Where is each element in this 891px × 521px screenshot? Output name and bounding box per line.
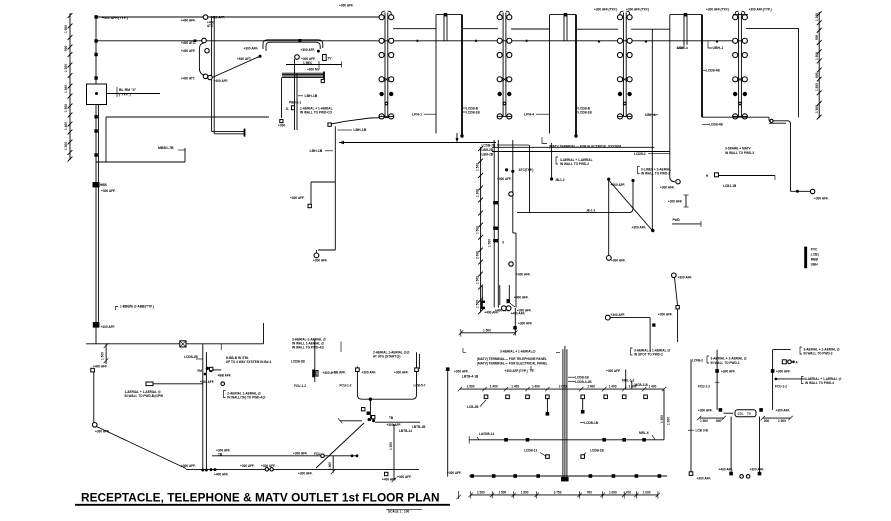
note 3-aerial right1 <box>707 356 747 365</box>
wire diagonal A to B <box>212 47 262 78</box>
svg-text:+300 AFF.: +300 AFF. <box>658 313 673 317</box>
note 2-aerial mid <box>224 391 266 400</box>
wire door frame D1 <box>436 13 464 138</box>
svg-text:+300 AFF.(TYP.): +300 AFF.(TYP.) <box>706 8 729 12</box>
label +400 AFF TYP <box>102 16 128 20</box>
note 3-aerial above grid right <box>631 348 671 357</box>
label LCB-2B grid <box>467 400 486 409</box>
dimension v664 <box>660 389 671 440</box>
svg-text:+300 AFF.: +300 AFF. <box>611 313 626 317</box>
label +300 AFF TYP row <box>339 4 772 12</box>
svg-text:700: 700 <box>587 491 592 495</box>
outlet circles cluster A <box>181 15 228 83</box>
svg-text:1 300: 1 300 <box>389 442 393 450</box>
svg-text:FCU: FCU <box>314 452 321 456</box>
svg-text:+300 AFF.(TYP.): +300 AFF.(TYP.) <box>594 8 617 12</box>
svg-text:+300 AFF.: +300 AFF. <box>497 177 512 181</box>
panel blob lower <box>93 322 115 329</box>
svg-text:LAVDB-14: LAVDB-14 <box>479 432 494 436</box>
outlet column K2 <box>617 11 632 119</box>
svg-text:+BB AFF.: +BB AFF. <box>332 370 346 374</box>
svg-text:1 500: 1 500 <box>498 491 506 495</box>
wire U drops <box>729 417 761 476</box>
svg-text:JE-1-1: JE-1-1 <box>586 208 596 212</box>
svg-text:700: 700 <box>626 491 631 495</box>
svg-text:H: H <box>706 174 709 178</box>
svg-text:LBH-2B: LBH-2B <box>482 148 494 152</box>
svg-text:LCB1-1B: LCB1-1B <box>723 184 737 188</box>
svg-text:1 500: 1 500 <box>700 419 708 423</box>
panel C blob corridor bottom <box>481 286 485 309</box>
svg-text:+300 AFF.: +300 AFF. <box>632 225 647 229</box>
wire door frame D3 <box>670 13 702 134</box>
wire row2 y439.8 <box>469 436 664 444</box>
legend bars <box>804 247 819 269</box>
wire diagonal knot <box>316 423 364 468</box>
svg-text:1 500: 1 500 <box>476 300 480 308</box>
outlet dots corridor top <box>505 168 533 173</box>
wire knot to right <box>375 422 426 429</box>
label UBH-1 <box>708 42 723 51</box>
wire left room rectangle <box>96 117 185 162</box>
svg-text:800: 800 <box>815 73 819 78</box>
svg-text:+300 AFF.: +300 AFF. <box>776 409 791 413</box>
wire JE-1-1 <box>517 179 635 213</box>
svg-text:LCDB-2B: LCDB-2B <box>291 359 306 363</box>
label corridor AFF texts <box>488 177 533 326</box>
svg-text:1 500: 1 500 <box>483 329 491 333</box>
wire center bundle <box>556 346 569 481</box>
svg-text:+300 AFF.: +300 AFF. <box>611 259 626 263</box>
label LCDB stack D2 <box>576 106 593 114</box>
note top 3-aerial left <box>292 337 326 349</box>
wire col3 bottom to right <box>702 117 769 121</box>
svg-text:1 000: 1 000 <box>609 491 617 495</box>
svg-text:MRL-1-2: MRL-1-2 <box>622 378 635 382</box>
svg-text:+400 AFF.: +400 AFF. <box>211 16 226 20</box>
svg-text:+300 AFF.: +300 AFF. <box>606 369 621 373</box>
svg-text:+400 ATC.: +400 ATC. <box>181 41 196 45</box>
note in wall to PWD <box>300 107 333 115</box>
outlet circle B1 <box>295 48 316 65</box>
label LCDB-4B lower <box>702 123 724 127</box>
wire main left wall vertical <box>96 15 98 344</box>
tv outlet B <box>323 55 333 61</box>
wire stems grid row1 <box>546 399 585 416</box>
svg-text:C7L: C7L <box>738 412 744 416</box>
label LCDB stack D1 <box>462 106 481 114</box>
wire long y343.8 <box>86 323 263 344</box>
wire B verticals <box>282 59 298 130</box>
section mark mid <box>668 195 689 207</box>
svg-text:1 400: 1 400 <box>64 122 68 130</box>
svg-text:+300 AFF.: +300 AFF. <box>362 370 377 374</box>
svg-text:LCDB-2B: LCDB-2B <box>184 355 199 359</box>
svg-text:1 000: 1 000 <box>643 491 651 495</box>
wire y117 left room <box>106 116 269 118</box>
dimension line corridor <box>476 146 484 314</box>
svg-text:A: A <box>796 361 799 365</box>
svg-text:IN WALL TO PWD-4@: IN WALL TO PWD-4@ <box>292 346 324 350</box>
label HBB1-7B <box>158 146 185 150</box>
svg-text:LCDB-1B: LCDB-1B <box>590 448 605 452</box>
svg-text:LBTB-4-1B: LBTB-4-1B <box>462 375 479 379</box>
svg-text:IN WALL TO PWD-2: IN WALL TO PWD-2 <box>804 352 833 356</box>
dimension U left <box>697 416 726 423</box>
svg-text:1 500: 1 500 <box>815 52 819 60</box>
svg-text:1 500: 1 500 <box>815 83 819 91</box>
svg-text:TV: TV <box>328 57 333 61</box>
wire corridor top links <box>492 147 670 151</box>
wire MRL verticals <box>622 370 648 390</box>
dimension v333 <box>328 456 336 474</box>
svg-text:+300 AFF.: +300 AFF. <box>293 451 308 455</box>
label LPH-1 <box>412 113 436 117</box>
svg-text:MRL-6: MRL-6 <box>639 431 649 435</box>
svg-text:+300 AFF.(TYP.): +300 AFF.(TYP.) <box>749 8 772 12</box>
svg-text:+400 AFF.: +400 AFF. <box>214 79 229 83</box>
svg-text:LBTB-1B: LBTB-1B <box>412 425 426 429</box>
svg-text:+300 AFF.: +300 AFF. <box>244 47 259 51</box>
svg-text:LBTB-14: LBTB-14 <box>399 429 412 433</box>
svg-text:FCU-1-2: FCU-1-2 <box>698 384 710 388</box>
label LBTB-14 <box>399 429 412 433</box>
note 2-aerial room top <box>341 342 410 359</box>
svg-text:1 500: 1 500 <box>660 415 664 423</box>
svg-text:1 500: 1 500 <box>64 25 68 33</box>
svg-text:JB-1-2: JB-1-2 <box>555 178 565 182</box>
svg-text:1 400: 1 400 <box>587 384 595 388</box>
label scale <box>386 509 422 513</box>
wire bus y41 <box>96 39 748 42</box>
svg-text:1 300: 1 300 <box>476 189 480 197</box>
wire circle 607 to grid <box>605 313 672 353</box>
svg-text:+300 AFF.: +300 AFF. <box>668 200 683 204</box>
label LPH-4 <box>524 113 550 117</box>
svg-text:+300 AFF.(TYP.): +300 AFF.(TYP.) <box>626 8 649 12</box>
label LBH-1B g <box>338 128 367 132</box>
svg-text:PVC: PVC <box>811 248 818 252</box>
note in wall mid <box>556 157 593 166</box>
svg-text:LCDB-7B: LCDB-7B <box>482 143 497 147</box>
wire diagonal mid <box>610 181 653 231</box>
svg-text:3-AERIAL + 1-AERIAL@: 3-AERIAL + 1-AERIAL@ <box>500 349 536 353</box>
svg-text:FCU-1-2: FCU-1-2 <box>775 384 787 388</box>
dimension bottom grid <box>456 491 660 500</box>
outlet left wall bottom <box>91 364 110 433</box>
svg-text:TB: TB <box>389 416 394 420</box>
svg-text:FM: FM <box>198 369 203 373</box>
svg-text:JL: JL <box>286 107 290 111</box>
wire right transition to v790 <box>769 119 791 124</box>
label 1-BBB ABB TYP <box>116 305 154 311</box>
labels corridor top stack <box>482 143 530 156</box>
svg-text:+400 AFF.: +400 AFF. <box>214 472 229 476</box>
svg-text:1 500: 1 500 <box>64 104 68 112</box>
svg-text:+300 AFF.: +300 AFF. <box>721 369 736 373</box>
svg-text:+300 AFF.: +300 AFF. <box>447 471 462 475</box>
svg-text:IN WALL TO PWD-4: IN WALL TO PWD-4 <box>805 381 834 385</box>
wire PWD <box>672 218 701 227</box>
title text <box>81 491 440 505</box>
svg-text:800: 800 <box>764 419 769 423</box>
svg-text:900: 900 <box>815 35 819 40</box>
labels U bottom <box>719 467 765 478</box>
svg-text:+300 AFF.: +300 AFF. <box>697 476 712 480</box>
svg-text:1 400: 1 400 <box>609 384 617 388</box>
svg-text:+400 AFF.: +400 AFF. <box>181 49 196 53</box>
note 3-aerial right2 <box>800 347 840 356</box>
dimension small left <box>101 343 109 364</box>
label LBH-1B <box>298 94 318 98</box>
svg-text:+400 AFF.: +400 AFF. <box>719 467 734 471</box>
wire rounded bus cluster B <box>263 39 323 53</box>
svg-text:900: 900 <box>64 46 68 51</box>
svg-text:IN WALL TO PWD-3: IN WALL TO PWD-3 <box>725 151 754 155</box>
svg-text:(MATV TERMINAL— FOR ELECTRICAL: (MATV TERMINAL— FOR ELECTRICAL SYSTEM <box>549 144 621 148</box>
svg-text:+400 AFF.: +400 AFF. <box>514 296 529 300</box>
svg-text:+300 AFF.: +300 AFF. <box>454 369 469 373</box>
svg-text:IN WALL/TA) TO PWD-4@: IN WALL/TA) TO PWD-4@ <box>227 396 265 400</box>
wire long y142.5 <box>339 141 496 144</box>
svg-text:1 500: 1 500 <box>64 142 68 150</box>
svg-text:+300 AFF.: +300 AFF. <box>516 273 531 277</box>
svg-text:AT 30% (START@): AT 30% (START@) <box>373 355 400 359</box>
label +300 AFF TYP grid <box>505 366 535 373</box>
svg-text:PWD: PWD <box>673 218 681 222</box>
svg-text:FCU-1-2: FCU-1-2 <box>340 384 352 388</box>
label MRL-6 <box>639 431 655 440</box>
svg-text:MCB-2-B: MCB-2-B <box>635 383 649 387</box>
svg-text:UBH-1: UBH-1 <box>713 46 724 50</box>
svg-text:FCU-1-2: FCU-1-2 <box>294 384 306 388</box>
outlet squares corridor <box>493 201 505 245</box>
label LCDB-12 <box>524 448 549 458</box>
note MATV terminal grid 1 <box>477 357 547 361</box>
wire circle 676 to lower <box>672 273 693 342</box>
svg-text:TB: TB <box>218 452 223 456</box>
label LCDB-2B left <box>184 355 203 359</box>
note in wall to PWD-B <box>125 382 203 398</box>
note 3-aerial grid top <box>500 349 536 353</box>
svg-text:1 000: 1 000 <box>667 417 671 425</box>
svg-text:(MATV) TERMINAL— FOR TELEPHONE: (MATV) TERMINAL— FOR TELEPHONE PANEL <box>477 357 547 361</box>
svg-text:LCDB-4B: LCDB-4B <box>706 69 721 73</box>
outlet cluster small right <box>782 360 798 365</box>
knot FM cluster <box>198 367 222 384</box>
svg-text:1 500: 1 500 <box>476 226 480 234</box>
svg-text:LCB-5-7: LCB-5-7 <box>414 384 426 388</box>
svg-text:IN WALL TO PWD-2: IN WALL TO PWD-2 <box>711 361 740 365</box>
svg-text:+300 AFF.: +300 AFF. <box>290 196 305 200</box>
wire corridor double vertical <box>494 140 498 308</box>
wire y455.8 <box>212 448 358 457</box>
svg-text:1 500: 1 500 <box>815 105 819 113</box>
svg-text:+400 AFF.: +400 AFF. <box>181 19 196 23</box>
svg-text:+300 AFF.: +300 AFF. <box>261 464 276 468</box>
wire door frame D2 <box>550 13 578 138</box>
svg-text:1 500: 1 500 <box>521 491 529 495</box>
labels room <box>340 384 426 388</box>
svg-text:+400 ATT.: +400 ATT. <box>181 77 195 81</box>
wire corridor right vertical <box>509 140 516 308</box>
svg-text:+400 AFF.: +400 AFF. <box>101 325 116 329</box>
svg-text:1 400: 1 400 <box>511 384 519 388</box>
svg-text:1 500: 1 500 <box>64 64 68 72</box>
outlet B bottom <box>278 120 285 128</box>
wire corridor riser x529 <box>529 145 531 213</box>
outlet column K0 <box>379 11 394 119</box>
svg-text:+300: +300 <box>278 124 285 128</box>
svg-text:+300 AFF.: +300 AFF. <box>660 186 675 190</box>
svg-text:LCDB-1B: LCDB-1B <box>584 421 599 425</box>
svg-text:1 300: 1 300 <box>64 85 68 93</box>
wire JB-1-2 <box>550 143 565 182</box>
wire v790 <box>791 124 829 201</box>
dimension row y389 <box>458 384 667 391</box>
svg-text:LCDB-4-1B: LCDB-4-1B <box>575 380 592 384</box>
label LAVDB-14 <box>477 432 494 440</box>
label UBH-1 lower <box>645 113 658 117</box>
svg-text:+300 AFF.: +300 AFF. <box>776 370 791 374</box>
svg-text:1 300: 1 300 <box>815 13 819 21</box>
bottom labels room <box>382 472 412 481</box>
svg-text:+300 AFF.: +300 AFF. <box>339 4 354 8</box>
wire v772 <box>771 350 791 410</box>
svg-text:+400 AFF.: +400 AFF. <box>484 311 499 315</box>
note 3-aerial right3 <box>802 377 842 386</box>
svg-text:X: X <box>502 241 505 245</box>
label LCDB-1B row3 <box>581 448 605 458</box>
note MATV terminal mid <box>542 137 621 148</box>
svg-text:SCALE 1 : 100: SCALE 1 : 100 <box>388 510 410 514</box>
svg-text:LBH-1B: LBH-1B <box>353 128 366 132</box>
svg-text:1 500: 1 500 <box>101 352 105 360</box>
svg-text:1 500: 1 500 <box>476 163 480 171</box>
wire v394 <box>389 424 396 482</box>
wire top hook right <box>773 349 791 351</box>
label LCDB stack grid <box>568 375 592 383</box>
outlet box on y343.8 <box>180 341 186 347</box>
svg-text:LBH-2B: LBH-2B <box>482 152 494 156</box>
svg-text:LBH-1B: LBH-1B <box>305 94 318 98</box>
label LCB-B <box>688 428 709 432</box>
outlet column K3 <box>733 11 748 119</box>
outlet circle small knot <box>218 374 232 386</box>
label UBH-4 <box>677 44 688 50</box>
svg-text:1 500: 1 500 <box>477 491 485 495</box>
svg-text:LCB 3-B: LCB 3-B <box>696 428 709 432</box>
panel box BL RM <box>87 84 161 105</box>
svg-text:LPH-1: LPH-1 <box>412 113 422 117</box>
wire y64.5 <box>286 61 342 72</box>
labels bottom row left <box>181 464 313 476</box>
wire connectors y28 <box>393 27 799 30</box>
label LCDB-4B upper <box>702 69 721 73</box>
wire left vertical grid v447 <box>446 348 479 477</box>
svg-text:1 400: 1 400 <box>649 384 657 388</box>
svg-text:IN WALL TO PWD-CO: IN WALL TO PWD-CO <box>300 110 333 114</box>
svg-text:+300 AFF.: +300 AFF. <box>101 189 116 193</box>
svg-text:LCFB-2: LCFB-2 <box>692 358 703 362</box>
wire h378.9 <box>775 378 806 381</box>
label LCDB-4 mid <box>634 152 670 156</box>
svg-text:( TYP. ): ( TYP. ) <box>119 93 131 97</box>
note MATV terminal grid 2 <box>477 361 548 365</box>
wire center double drop <box>201 344 208 472</box>
label LCDB-1B stem <box>580 421 599 425</box>
wire double bus mid-left <box>212 16 245 137</box>
svg-text:(MATV) TERMINAL— FOR ELECTRICA: (MATV) TERMINAL— FOR ELECTRICAL PANEL <box>477 361 548 365</box>
label LBH-1B q <box>310 149 334 153</box>
svg-text:3 750: 3 750 <box>554 491 562 495</box>
tv unit U <box>719 408 763 417</box>
svg-text:LPH-4: LPH-4 <box>524 113 534 117</box>
svg-text:+BB AFF.: +BB AFF. <box>218 374 232 378</box>
wire corridor arrow leader <box>456 133 459 143</box>
label LCFB-2 <box>692 358 703 362</box>
svg-text:LCB-2B: LCB-2B <box>467 405 479 409</box>
wire Q vertical <box>308 126 335 257</box>
svg-text:RECEPTACLE, TELEPHONE & MATV O: RECEPTACLE, TELEPHONE & MATV OUTLET 1st … <box>81 491 440 505</box>
note 3-spare right <box>725 147 754 155</box>
label LCDB-2B mid <box>291 359 306 388</box>
svg-text:2 000: 2 000 <box>476 251 480 259</box>
wire v654 <box>651 29 654 232</box>
dimension line left <box>64 13 72 161</box>
svg-text:+600 MV: +600 MV <box>307 68 321 72</box>
outlet cluster corridor bottom <box>500 285 517 336</box>
wire polyline G to column0 <box>331 116 393 124</box>
svg-text:+300 AFF.: +300 AFF. <box>518 322 533 326</box>
svg-text:UP TO 4 WAY SYSTEM IN Bd 4.: UP TO 4 WAY SYSTEM IN Bd 4. <box>226 360 272 364</box>
wire top bar col3 <box>733 14 748 16</box>
wire right drop v798 <box>798 28 800 117</box>
dimension line right top <box>815 11 822 119</box>
svg-text:+300 AFF.: +300 AFF. <box>397 475 412 479</box>
wire v314 <box>312 339 333 382</box>
svg-text:LCDB-1B: LCDB-1B <box>578 110 593 114</box>
svg-text:HBB: HBB <box>100 183 108 187</box>
svg-text:LCDB-4: LCDB-4 <box>634 152 646 156</box>
outlet H right mid <box>706 173 775 188</box>
svg-text:+300 AFF.: +300 AFF. <box>200 380 215 384</box>
note in wall right mid <box>638 167 672 176</box>
svg-text:IN WALL TO PWD-2: IN WALL TO PWD-2 <box>641 172 670 176</box>
svg-text:LCDB-1B: LCDB-1B <box>575 375 590 379</box>
wire JB down v608 <box>606 178 625 263</box>
dimension U right <box>761 416 793 423</box>
note H-BB <box>221 344 272 364</box>
svg-text:+300 AFF.: +300 AFF. <box>301 48 316 52</box>
svg-text:ATC: ATC <box>207 24 214 28</box>
dimension corridor bottom <box>459 329 518 337</box>
svg-text:+400 AFF.: +400 AFF. <box>511 312 526 316</box>
svg-text:1-BBB/B @ ABB/(TYP.): 1-BBB/B @ ABB/(TYP.) <box>120 305 154 309</box>
svg-text:LCDB-4B: LCDB-4B <box>709 123 724 127</box>
svg-text:+300 AFF.(TYP.): +300 AFF.(TYP.) <box>505 369 528 373</box>
label BL RM <box>117 87 137 97</box>
svg-text:+300 AFF.: +300 AFF. <box>698 409 713 413</box>
wire v691 <box>689 359 711 480</box>
svg-text:BL RM "4": BL RM "4" <box>119 88 137 92</box>
svg-text:800: 800 <box>716 419 721 423</box>
wire y469.6 <box>186 468 419 471</box>
svg-text:+400 AFF.: +400 AFF. <box>382 477 397 481</box>
svg-text:1 500: 1 500 <box>467 384 475 388</box>
outlet squares on left wall <box>94 15 97 156</box>
wire room outline <box>357 352 419 401</box>
